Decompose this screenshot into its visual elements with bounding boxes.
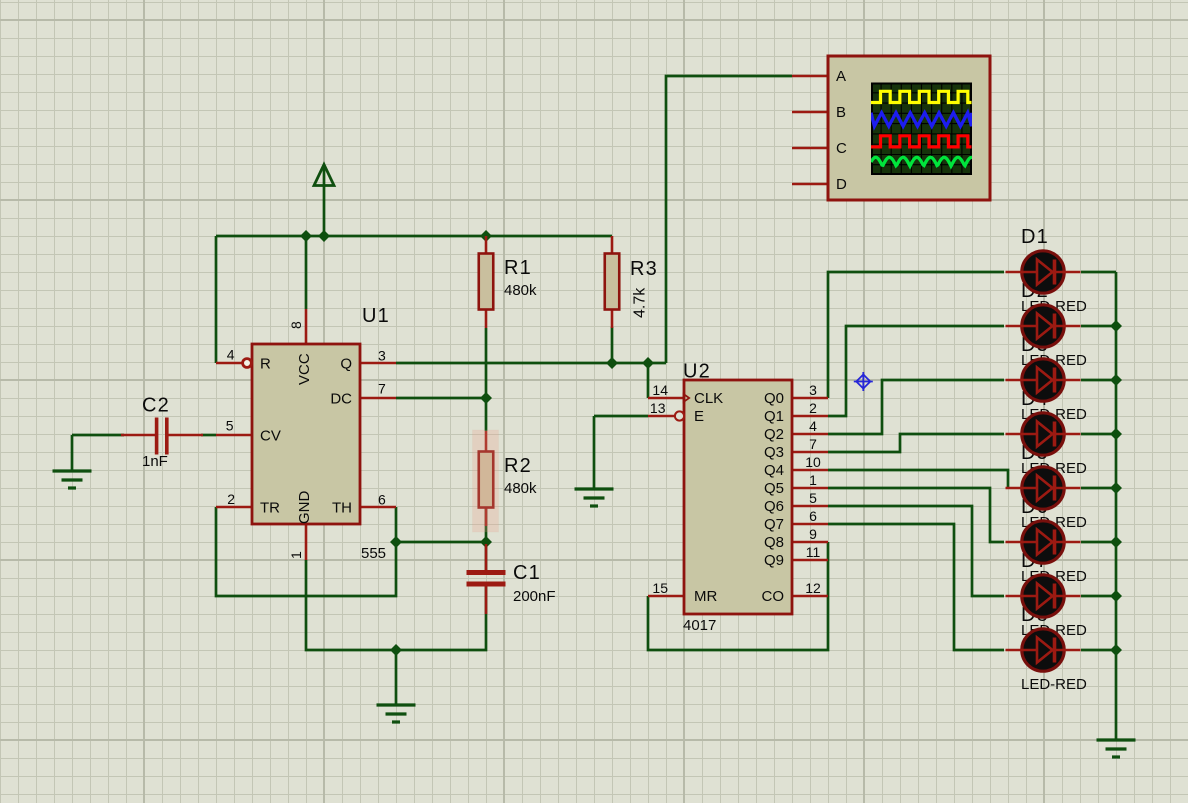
svg-text:LED-RED: LED-RED [1021,676,1087,693]
svg-text:14: 14 [652,382,668,398]
svg-text:4: 4 [809,418,817,434]
svg-text:Q1: Q1 [764,408,784,425]
svg-text:Q2: Q2 [764,426,784,443]
svg-text:3: 3 [809,382,817,398]
svg-text:TR: TR [260,500,280,517]
svg-text:4.7k: 4.7k [632,287,649,318]
svg-text:200nF: 200nF [513,588,556,605]
svg-text:TH: TH [332,500,352,517]
svg-text:5: 5 [226,418,234,434]
svg-text:555: 555 [361,545,386,562]
svg-text:CV: CV [260,428,281,445]
svg-text:4017: 4017 [683,617,716,634]
svg-text:Q3: Q3 [764,444,784,461]
svg-text:8: 8 [288,321,304,329]
svg-text:Q5: Q5 [764,480,784,497]
svg-text:B: B [836,104,846,121]
svg-text:D: D [836,176,847,193]
svg-text:DC: DC [330,391,352,408]
svg-text:1nF: 1nF [142,453,168,470]
svg-text:2: 2 [809,400,817,416]
svg-text:12: 12 [805,580,821,596]
svg-text:D1: D1 [1021,226,1049,248]
svg-text:C2: C2 [142,395,170,417]
svg-text:U2: U2 [683,361,711,383]
svg-text:2: 2 [227,491,235,507]
svg-text:9: 9 [809,526,817,542]
svg-text:Q: Q [340,356,352,373]
svg-text:15: 15 [652,580,668,596]
svg-text:7: 7 [378,381,386,397]
svg-text:R3: R3 [630,258,658,280]
svg-text:10: 10 [805,454,821,470]
svg-text:Q4: Q4 [764,462,784,479]
svg-text:C1: C1 [513,562,541,584]
svg-text:R2: R2 [504,455,532,477]
svg-text:4: 4 [227,347,235,363]
svg-text:5: 5 [809,490,817,506]
svg-text:VCC: VCC [296,353,313,385]
svg-text:11: 11 [806,544,821,560]
svg-text:7: 7 [809,436,817,452]
svg-text:R1: R1 [504,257,532,279]
svg-text:CO: CO [762,588,785,605]
svg-text:R: R [260,356,271,373]
svg-text:480k: 480k [504,480,537,497]
svg-text:Q0: Q0 [764,390,784,407]
svg-text:480k: 480k [504,282,537,299]
svg-text:A: A [836,68,846,85]
svg-text:GND: GND [296,491,313,525]
svg-text:Q7: Q7 [764,516,784,533]
svg-text:1: 1 [288,551,304,559]
svg-text:6: 6 [809,508,817,524]
svg-text:13: 13 [650,400,666,416]
svg-text:U1: U1 [362,305,390,327]
svg-text:3: 3 [378,348,386,364]
svg-text:1: 1 [809,472,817,488]
svg-text:CLK: CLK [694,390,723,407]
svg-text:Q9: Q9 [764,552,784,569]
svg-text:E: E [694,408,704,425]
svg-text:Q8: Q8 [764,534,784,551]
svg-text:C: C [836,140,847,157]
svg-text:MR: MR [694,588,717,605]
svg-text:6: 6 [378,492,386,508]
svg-text:Q6: Q6 [764,498,784,515]
